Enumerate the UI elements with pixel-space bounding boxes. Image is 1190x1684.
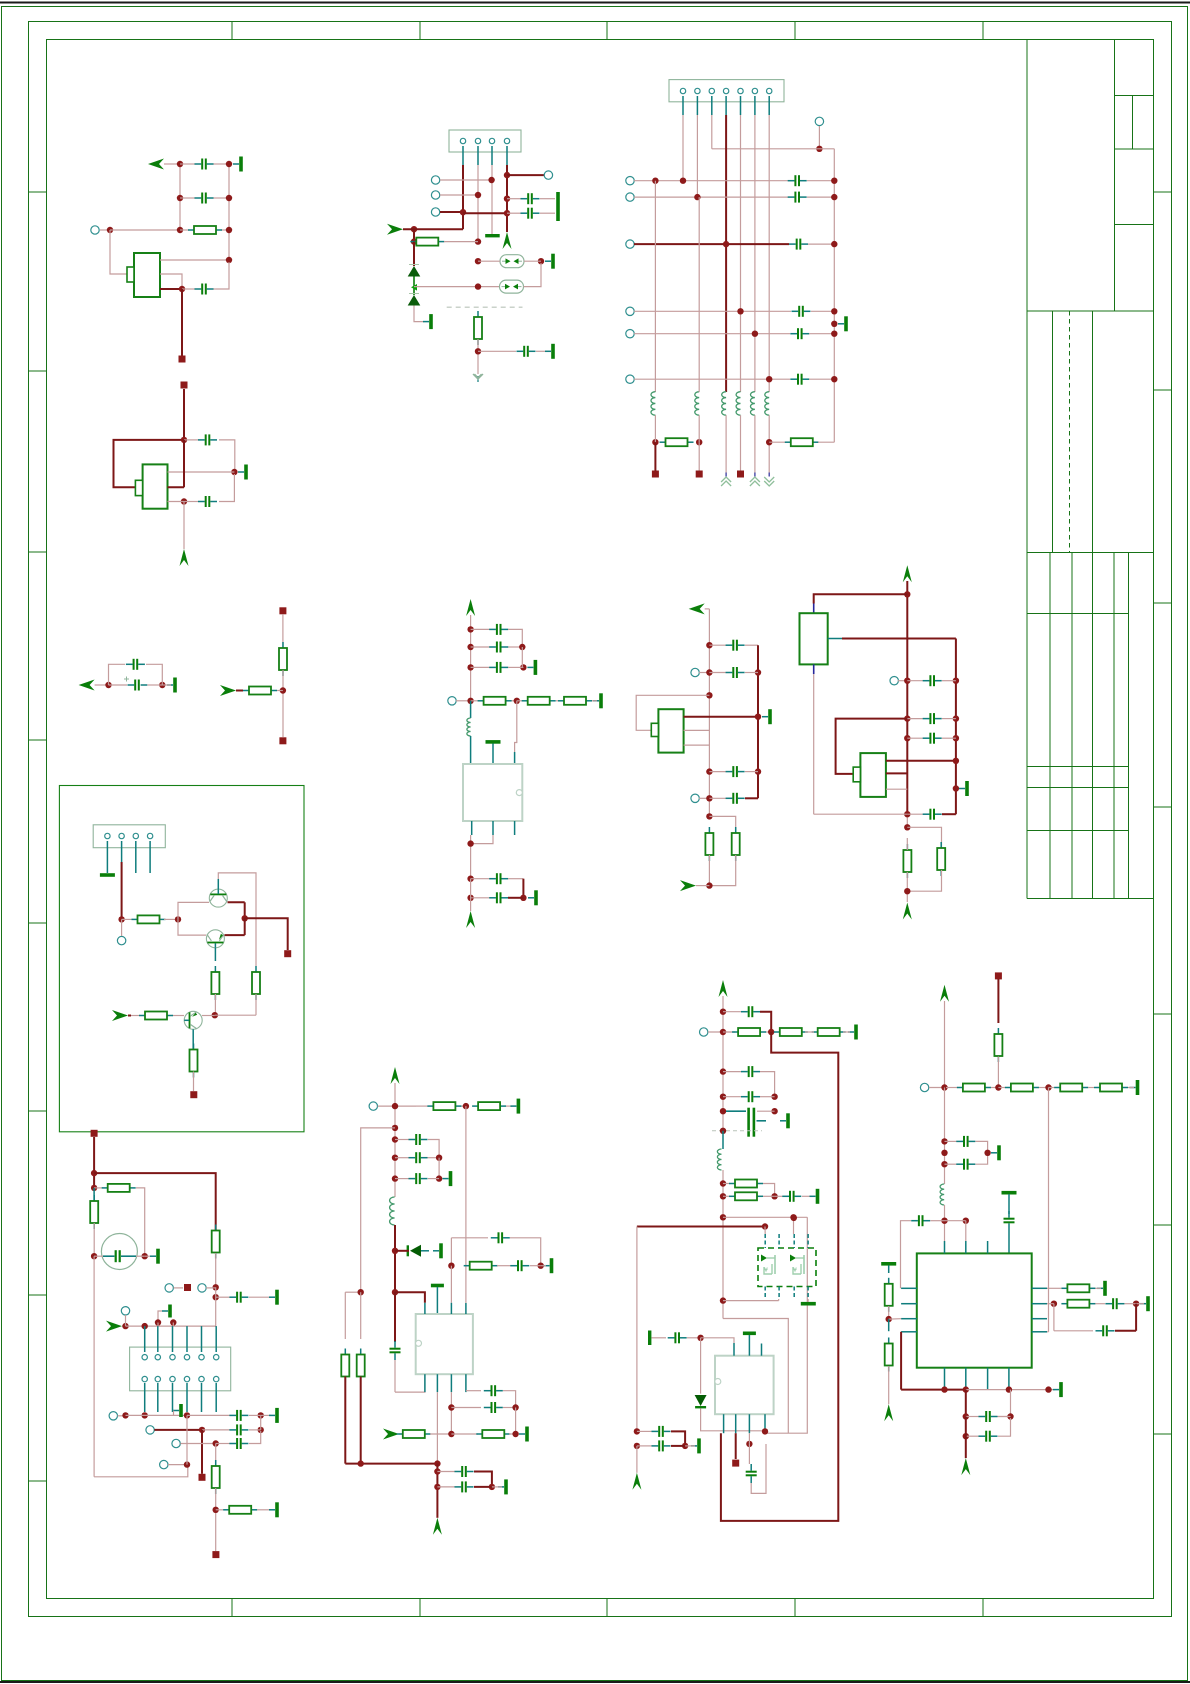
junction — [720, 1128, 726, 1134]
sheet outer black edge bottom — [0, 1681, 1190, 1683]
wire — [93, 1223, 95, 1238]
wire — [901, 1389, 966, 1391]
junction — [953, 785, 959, 791]
ground bar — [269, 1502, 279, 1517]
power port VCC arrow — [180, 549, 189, 566]
junction — [411, 238, 417, 244]
wire — [414, 286, 500, 288]
wire — [722, 996, 724, 1131]
junction — [768, 1029, 774, 1035]
net square — [199, 1474, 206, 1481]
ground bar — [510, 1099, 520, 1114]
resistor R16 — [131, 1012, 184, 1020]
net square — [91, 1130, 98, 1137]
wire — [723, 1300, 779, 1302]
wire — [634, 378, 790, 380]
wire — [757, 645, 759, 798]
junction — [706, 882, 712, 888]
junction — [434, 1468, 440, 1474]
capacitor C41 — [637, 1440, 671, 1451]
wire — [456, 700, 471, 702]
resistor R43 — [1061, 1300, 1095, 1308]
wire — [187, 1414, 230, 1416]
net square — [737, 471, 744, 478]
pin lead — [965, 1241, 967, 1253]
pin lead — [965, 1368, 967, 1390]
junction — [816, 146, 822, 152]
pin lead — [157, 1383, 159, 1412]
pin lead — [477, 146, 479, 165]
pin lead — [1008, 1230, 1010, 1253]
junction — [514, 698, 520, 704]
junction — [755, 669, 761, 675]
MOSFET Q4 — [761, 1255, 775, 1275]
wire — [503, 1391, 516, 1408]
wire — [219, 440, 235, 472]
power port arrow — [391, 1067, 400, 1084]
capacitor C14 — [471, 642, 523, 653]
resistor R22 — [216, 1506, 258, 1514]
resistor R13 — [122, 915, 166, 923]
wire — [218, 873, 256, 966]
resistor R40 — [885, 1278, 893, 1312]
wire — [440, 211, 463, 213]
wire — [172, 1323, 174, 1327]
wire — [160, 259, 229, 261]
IC U8 PA — [715, 1356, 774, 1415]
junction — [706, 642, 712, 648]
wire — [345, 1463, 437, 1465]
wire — [813, 674, 815, 814]
junction — [177, 161, 183, 167]
junction — [652, 178, 658, 184]
pin lead — [465, 1374, 467, 1392]
wire — [93, 1137, 95, 1188]
net square — [279, 607, 286, 614]
terminal T20 — [121, 1307, 129, 1315]
junction — [142, 1412, 148, 1418]
connector J1 — [449, 130, 521, 152]
junction — [941, 1386, 947, 1392]
pin lead dashed — [793, 1234, 795, 1248]
junction — [771, 1193, 777, 1199]
junction — [463, 1103, 469, 1109]
junction — [941, 1218, 947, 1224]
wire — [345, 1291, 360, 1293]
ground bar — [545, 344, 555, 359]
wire — [507, 174, 544, 176]
wire — [510, 1238, 541, 1266]
junction — [175, 916, 181, 922]
capacitor C48 — [966, 1411, 1011, 1422]
wire — [836, 719, 908, 774]
resonator F2 — [500, 280, 524, 293]
wire — [754, 415, 756, 472]
wire — [842, 638, 956, 640]
wire — [712, 148, 835, 150]
terminal T7 — [626, 177, 634, 185]
terminal T24 — [160, 1460, 168, 1468]
resistor R9 — [705, 827, 713, 861]
pin lead — [450, 1374, 452, 1392]
dashed separator — [447, 306, 523, 308]
transistor Q2 — [206, 930, 224, 948]
terminal T23 — [172, 1439, 180, 1447]
wire — [162, 684, 171, 686]
pin lead — [186, 1326, 188, 1352]
power port arrow — [632, 1473, 641, 1490]
wire — [154, 1429, 202, 1431]
ground bar — [545, 254, 555, 269]
wire — [725, 415, 727, 472]
wire — [395, 1292, 425, 1303]
wire — [1135, 1304, 1137, 1331]
power bar — [1002, 1191, 1017, 1195]
junction — [953, 758, 959, 764]
junction — [963, 1433, 969, 1439]
resistor R18 — [94, 1184, 136, 1192]
capacitor C20 — [216, 1292, 249, 1303]
wire — [698, 415, 700, 442]
wire — [1048, 1088, 1050, 1332]
power bar — [991, 1145, 1001, 1160]
wire — [148, 684, 163, 686]
wire — [202, 1015, 215, 1017]
resistor R35 — [994, 1028, 1002, 1062]
connector J3 — [93, 825, 165, 848]
junction — [358, 1289, 364, 1295]
resistor R17 — [190, 1044, 198, 1078]
pin lead — [436, 1374, 438, 1392]
wire — [1095, 1303, 1105, 1305]
pin lead — [514, 752, 516, 764]
wire — [474, 1486, 492, 1488]
wire — [394, 1083, 396, 1197]
wire — [540, 212, 555, 214]
wire — [1115, 1330, 1136, 1332]
junction — [953, 678, 959, 684]
terminal T10 — [626, 307, 634, 315]
terminal T8 — [626, 193, 634, 201]
wire — [503, 1407, 516, 1409]
resistor R11 — [903, 844, 911, 878]
wire — [1053, 1304, 1055, 1331]
junction — [448, 1431, 454, 1437]
resistor R33 — [723, 1180, 763, 1188]
junction — [91, 1170, 97, 1176]
wire — [255, 994, 257, 1015]
junction — [199, 1427, 205, 1433]
wire — [245, 918, 288, 950]
capacitor C44 — [911, 1215, 930, 1226]
wire — [216, 262, 229, 289]
junction — [122, 1412, 128, 1418]
wire — [168, 501, 185, 503]
pin lead — [722, 1131, 724, 1149]
wire — [93, 1238, 95, 1256]
net square — [284, 950, 291, 957]
junction — [706, 813, 712, 819]
terminal T22 — [146, 1426, 154, 1434]
wire — [708, 855, 710, 886]
wire — [942, 680, 956, 682]
ground chevron — [750, 473, 760, 487]
wire — [95, 684, 109, 686]
wire — [160, 288, 182, 290]
junction — [118, 916, 124, 922]
wire — [228, 164, 230, 260]
wire — [740, 415, 742, 470]
wire — [93, 1256, 95, 1477]
group box — [59, 786, 304, 1132]
wire — [763, 1184, 775, 1197]
wire — [186, 1415, 188, 1464]
zone ticks right — [1154, 192, 1172, 1434]
ground bar — [544, 1258, 554, 1273]
resistor R10 — [732, 827, 740, 861]
wire — [225, 934, 245, 936]
IC U2 — [135, 464, 167, 508]
wire — [709, 816, 735, 833]
wire — [515, 1408, 517, 1435]
zone ticks top — [232, 22, 983, 40]
wire — [228, 901, 245, 903]
wire — [955, 639, 957, 815]
capacitor C36 — [723, 1091, 760, 1102]
capacitor C23 — [907, 713, 941, 724]
capacitor C5 — [184, 496, 217, 507]
wire — [814, 594, 908, 603]
wire — [463, 212, 507, 214]
junction — [392, 1136, 398, 1142]
resistor R23 — [416, 1102, 466, 1110]
junction — [520, 664, 526, 670]
pin lead — [149, 841, 151, 873]
capacitor C2 — [180, 193, 229, 204]
wire — [907, 827, 941, 848]
wire — [636, 1446, 638, 1473]
capacitor C9 — [517, 346, 536, 357]
pin lead dashed — [807, 1234, 809, 1248]
wire — [698, 442, 700, 470]
resistor R28 — [341, 1349, 349, 1383]
junction — [762, 1428, 768, 1434]
net square — [732, 1460, 739, 1467]
port P7 — [112, 1010, 128, 1021]
junction — [504, 172, 510, 178]
junction — [226, 195, 232, 201]
wire — [530, 1265, 541, 1267]
wire — [508, 629, 522, 647]
pin lead — [144, 1326, 146, 1352]
junction — [831, 308, 837, 314]
wire — [121, 919, 123, 936]
wire — [413, 229, 415, 241]
wire — [201, 1430, 203, 1474]
wire — [492, 1486, 502, 1488]
junction — [475, 348, 481, 354]
junction — [771, 1108, 777, 1114]
junction — [226, 257, 232, 263]
resistor R4 — [474, 311, 482, 345]
wire — [109, 684, 128, 686]
wire — [965, 1417, 967, 1459]
capacitor C9 — [792, 306, 811, 317]
net square — [184, 1284, 191, 1291]
diode D2 TVS — [408, 294, 421, 306]
terminal T5 — [544, 171, 552, 179]
resistor R38 — [1049, 1084, 1089, 1092]
wire — [414, 306, 424, 322]
wire — [541, 1265, 546, 1267]
wire — [944, 1088, 946, 1185]
junction — [634, 1443, 640, 1449]
pin lead — [888, 1319, 890, 1331]
wire — [100, 229, 110, 231]
ground chevron — [764, 473, 774, 487]
wire — [216, 1443, 230, 1445]
pin lead — [506, 146, 508, 165]
wire — [711, 115, 713, 149]
wire — [193, 1072, 195, 1092]
pin lead — [201, 1383, 203, 1412]
ground bar — [443, 1171, 453, 1186]
wire — [536, 350, 549, 352]
capacitor C31 — [484, 1402, 503, 1413]
pin lead — [711, 96, 713, 115]
wire — [173, 1411, 175, 1416]
net square — [212, 1551, 219, 1558]
wire — [157, 1323, 159, 1327]
pin lead — [764, 1414, 766, 1433]
wire — [965, 1390, 967, 1417]
wire — [360, 1377, 362, 1464]
junction — [904, 811, 910, 817]
wire — [451, 1433, 478, 1435]
power port arrow — [466, 599, 475, 616]
junction — [720, 1029, 726, 1035]
junction — [280, 687, 286, 693]
pin lead — [768, 96, 770, 115]
IC U3 regulator — [463, 764, 522, 821]
pin stub blue — [813, 664, 815, 674]
junction — [242, 915, 248, 921]
wire — [121, 862, 123, 919]
capacitor C39 — [746, 1464, 757, 1483]
transistor Q1 — [209, 889, 227, 907]
pin lead — [470, 701, 472, 718]
pin lead — [491, 146, 493, 165]
pin lead — [754, 96, 756, 115]
wire — [745, 771, 758, 773]
wire — [886, 772, 907, 774]
junction — [831, 241, 837, 247]
wire — [451, 1407, 481, 1409]
resistor R3 — [471, 697, 517, 705]
connector J2 — [669, 80, 784, 102]
wire — [889, 1318, 901, 1320]
wire — [146, 664, 162, 685]
capacitor C_E1 electrolytic — [124, 677, 147, 691]
wire — [450, 1266, 452, 1303]
capacitor C28 — [497, 1260, 529, 1271]
wire — [118, 1415, 126, 1417]
junction — [941, 1150, 947, 1156]
wire — [929, 1087, 946, 1089]
resistor R25 — [464, 1262, 498, 1270]
resistor R20 — [212, 1225, 220, 1259]
resistor R30 — [723, 1028, 771, 1036]
junction — [467, 698, 473, 704]
ground chevron — [721, 473, 731, 487]
capacitor C22 — [229, 1424, 248, 1435]
wire — [723, 1319, 788, 1434]
terminal T2 — [431, 176, 439, 184]
wire — [634, 333, 790, 335]
junction — [831, 376, 837, 382]
net square — [279, 737, 286, 744]
wire — [634, 180, 788, 182]
resistor R32 — [812, 1028, 846, 1036]
power bar — [848, 1025, 858, 1040]
resistor R24 — [472, 1102, 506, 1110]
wire — [760, 1096, 775, 1098]
port P5 — [689, 603, 705, 614]
wire — [721, 1032, 838, 1521]
wire — [748, 1433, 750, 1444]
wire — [700, 1338, 702, 1394]
port P6 — [680, 880, 696, 891]
capacitor C18 — [709, 640, 744, 651]
junction — [258, 1427, 264, 1433]
wire — [900, 1332, 902, 1390]
wire — [699, 797, 709, 799]
inductor L4 — [736, 392, 740, 416]
junction — [720, 1180, 726, 1186]
wire — [160, 274, 182, 289]
inductor L10 — [940, 1184, 944, 1205]
wire — [998, 1416, 1011, 1418]
ground bar — [498, 1479, 508, 1494]
resistor R41 — [885, 1338, 893, 1372]
wire — [474, 1472, 492, 1487]
junction — [694, 194, 700, 200]
power port arrow — [719, 980, 728, 997]
wire — [998, 1418, 1011, 1436]
wire — [109, 664, 126, 685]
capacitor C19 — [709, 667, 744, 678]
wire — [110, 230, 127, 274]
ground bar — [527, 660, 537, 675]
junction — [963, 1386, 969, 1392]
junction — [107, 227, 113, 233]
wire — [126, 1325, 217, 1327]
wire — [818, 441, 834, 443]
terminal T6 — [815, 117, 823, 125]
capacitor C23 — [229, 1438, 248, 1449]
junction — [766, 439, 772, 445]
resistor R21 — [212, 1460, 220, 1494]
wire — [430, 1433, 451, 1435]
wire — [760, 1072, 775, 1097]
wire — [215, 1444, 217, 1467]
wire — [413, 242, 415, 266]
wire — [94, 1255, 103, 1257]
wire — [126, 1414, 188, 1416]
connector J4 — [130, 1347, 231, 1391]
wire — [976, 1141, 988, 1152]
pin lead — [696, 96, 698, 115]
